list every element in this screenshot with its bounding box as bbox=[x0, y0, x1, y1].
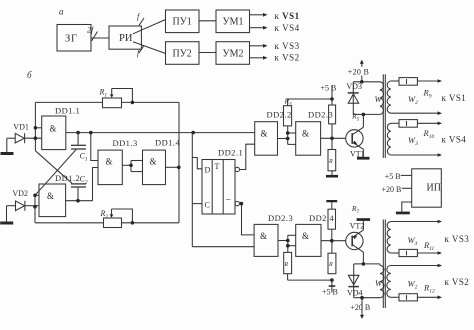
svg-text:к VS1: к VS1 bbox=[442, 93, 467, 103]
svg-text:+5 В: +5 В bbox=[322, 288, 338, 297]
svg-text:VT1: VT1 bbox=[350, 149, 365, 158]
svg-text:+20 В: +20 В bbox=[350, 303, 370, 312]
svg-text:R: R bbox=[284, 262, 289, 268]
svg-text:к VS4: к VS4 bbox=[275, 23, 300, 33]
svg-text:VD1: VD1 bbox=[13, 123, 29, 132]
svg-text:к VS1: к VS1 bbox=[275, 11, 300, 21]
svg-text:+5 В: +5 В bbox=[321, 84, 337, 93]
svg-text:&: & bbox=[302, 129, 309, 139]
svg-text:+20 В: +20 В bbox=[382, 185, 402, 194]
svg-text:VT2: VT2 bbox=[350, 222, 365, 231]
svg-text:VD4: VD4 bbox=[347, 289, 363, 298]
svg-text:к VS3: к VS3 bbox=[445, 234, 470, 244]
svg-text:DD1.1: DD1.1 bbox=[55, 106, 80, 116]
svg-text:DD1.3: DD1.3 bbox=[113, 138, 138, 148]
svg-text:&: & bbox=[150, 157, 157, 167]
svg-text:DD2.3: DD2.3 bbox=[308, 110, 333, 120]
svg-text:РИ: РИ bbox=[119, 33, 133, 44]
svg-text:DD2.2: DD2.2 bbox=[267, 110, 292, 120]
svg-text:D: D bbox=[205, 166, 211, 175]
svg-text:&: & bbox=[106, 157, 113, 167]
svg-text:ЗГ: ЗГ bbox=[65, 34, 78, 45]
svg-text:+20 В: +20 В bbox=[348, 68, 369, 77]
svg-text:R: R bbox=[328, 159, 333, 165]
svg-text:DD1.4: DD1.4 bbox=[155, 138, 180, 148]
svg-text:VD2: VD2 bbox=[12, 189, 28, 198]
svg-text:DD1.2: DD1.2 bbox=[55, 173, 80, 183]
svg-text:DD2.4: DD2.4 bbox=[309, 213, 334, 223]
svg-text:УМ2: УМ2 bbox=[223, 49, 244, 60]
svg-text:&: & bbox=[47, 191, 54, 201]
svg-text:+5 В: +5 В bbox=[385, 172, 401, 181]
svg-text:VD3: VD3 bbox=[346, 82, 362, 91]
svg-text:DD2.3: DD2.3 bbox=[268, 213, 293, 223]
svg-text:DD2.1: DD2.1 bbox=[218, 147, 243, 157]
svg-text:к VS4: к VS4 bbox=[442, 135, 467, 145]
svg-text:к VS3: к VS3 bbox=[275, 41, 300, 51]
svg-text:&: & bbox=[261, 129, 268, 139]
svg-text:&: & bbox=[302, 231, 309, 241]
svg-text:R: R bbox=[328, 262, 333, 268]
svg-text:к VS2: к VS2 bbox=[445, 277, 470, 287]
svg-text:к VS2: к VS2 bbox=[275, 53, 300, 63]
svg-text:б: б bbox=[27, 70, 32, 80]
svg-text:&: & bbox=[260, 231, 267, 241]
svg-text:ПУ2: ПУ2 bbox=[173, 49, 192, 60]
svg-text:C: C bbox=[205, 201, 210, 210]
svg-text:–: – bbox=[225, 194, 231, 204]
svg-text:&: & bbox=[50, 124, 57, 134]
svg-text:ИП: ИП bbox=[427, 183, 441, 194]
svg-text:УМ1: УМ1 bbox=[223, 17, 244, 28]
svg-text:а: а bbox=[59, 7, 64, 17]
svg-text:T: T bbox=[215, 162, 220, 171]
svg-text:ПУ1: ПУ1 bbox=[173, 17, 192, 28]
